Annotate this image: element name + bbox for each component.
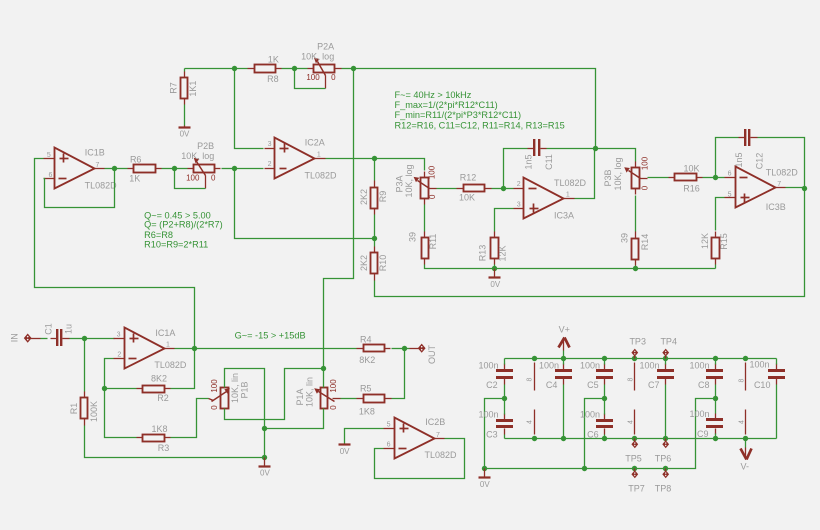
svg-text:1: 1 (566, 192, 570, 199)
wire (786, 187, 805, 189)
capacitor C2 100n (478, 361, 513, 391)
wire (758, 138, 805, 189)
svg-text:R9: R9 (378, 191, 388, 203)
wire (222, 168, 235, 170)
wire (715, 385, 717, 399)
junction (532, 436, 537, 441)
svg-text:R11: R11 (428, 234, 438, 250)
svg-text:0V: 0V (260, 469, 270, 478)
svg-text:C6: C6 (587, 430, 599, 440)
potentiometer P1B 10K lin (209, 373, 250, 410)
svg-text:0: 0 (641, 185, 650, 190)
capacitor C7 100n (639, 361, 674, 390)
wire (105, 359, 114, 389)
svg-text:R4: R4 (360, 334, 372, 344)
resistor R11 39 (407, 232, 437, 265)
junction (561, 356, 566, 361)
wire (374, 159, 376, 181)
wire (282, 68, 295, 70)
capacitor C12 1n5 (734, 129, 765, 169)
svg-text:R2: R2 (157, 393, 169, 403)
svg-text:10K, log: 10K, log (301, 51, 334, 61)
wire (235, 168, 264, 170)
wire (374, 215, 376, 239)
svg-text:0V: 0V (490, 280, 500, 289)
svg-text:0V: 0V (480, 480, 490, 489)
svg-text:C9: C9 (697, 429, 709, 439)
resistor R12 10K (457, 173, 492, 203)
svg-text:1: 1 (166, 342, 170, 349)
svg-text:7: 7 (436, 432, 440, 439)
junction (663, 356, 668, 361)
junction (633, 266, 638, 271)
wire (375, 189, 805, 297)
test point TP5 (625, 439, 642, 464)
svg-text:C4: C4 (546, 380, 558, 390)
svg-text:10K, log: 10K, log (404, 164, 414, 197)
svg-text:0V: 0V (340, 447, 350, 456)
capacitor C4 100n (539, 361, 572, 391)
svg-text:10K, log: 10K, log (613, 157, 623, 190)
capacitor C10 100n (749, 360, 785, 390)
junction (713, 175, 718, 180)
wire (716, 198, 725, 231)
svg-text:P2B: P2B (197, 141, 214, 151)
svg-text:1K1: 1K1 (188, 81, 198, 97)
svg-text:IC3A: IC3A (554, 210, 574, 220)
wire (171, 349, 195, 389)
svg-text:TL082D: TL082D (85, 181, 118, 191)
svg-text:100n: 100n (749, 360, 769, 370)
ground 0V (R13) (489, 269, 501, 290)
svg-text:100: 100 (427, 165, 436, 179)
ground 0V (cap bank) (479, 469, 491, 489)
junction (713, 436, 718, 441)
svg-text:TL082D: TL082D (766, 168, 799, 178)
svg-text:C7: C7 (648, 380, 660, 390)
svg-text:39: 39 (619, 233, 629, 243)
svg-text:100: 100 (210, 379, 219, 393)
op-amp IC2A (TL082D) (265, 137, 338, 180)
svg-text:R12: R12 (460, 173, 477, 183)
svg-text:V+: V+ (559, 325, 570, 335)
wire (105, 168, 115, 170)
svg-text:2: 2 (117, 351, 121, 358)
wire (505, 358, 777, 360)
svg-text:7: 7 (96, 162, 100, 169)
wire (41, 338, 48, 340)
wire (295, 68, 308, 70)
svg-text:R8: R8 (267, 74, 279, 84)
svg-text:100n: 100n (478, 361, 498, 371)
svg-text:8K2: 8K2 (359, 355, 375, 365)
svg-text:1K8: 1K8 (151, 424, 167, 434)
svg-text:100: 100 (329, 379, 338, 393)
wire (604, 435, 606, 439)
pin IN (10, 333, 41, 342)
wire (35, 159, 195, 349)
junction (351, 66, 356, 71)
svg-text:Q= (P2+R8)/(2*R7): Q= (P2+R8)/(2*R7) (144, 220, 223, 230)
wire (354, 69, 596, 149)
wire (175, 169, 206, 189)
svg-text:IN: IN (10, 333, 20, 342)
svg-text:TP6: TP6 (655, 454, 672, 464)
svg-text:100n: 100n (689, 409, 709, 419)
svg-text:2: 2 (268, 161, 272, 168)
ground 0V (main) (259, 458, 271, 478)
capacitor C6 100n (580, 410, 613, 440)
potentiometer P3B 10K log (603, 156, 650, 194)
junction (743, 356, 748, 361)
wire (374, 239, 376, 247)
wire (342, 68, 354, 70)
svg-text:TP3: TP3 (629, 337, 646, 347)
resistor R14 39 (619, 232, 650, 266)
wire (485, 399, 505, 469)
test point TP4 (660, 337, 677, 359)
wire (171, 399, 209, 438)
svg-text:IC2A: IC2A (305, 137, 325, 147)
test point TP3 (629, 337, 646, 359)
svg-text:6: 6 (49, 172, 53, 179)
resistor R6 1K (128, 155, 162, 184)
junction (172, 166, 177, 171)
svg-text:1: 1 (317, 152, 321, 159)
resistor R4 8K2 (357, 334, 391, 365)
op-amp IC3B (TL082D) (725, 167, 799, 212)
wire (392, 349, 405, 399)
junction (802, 186, 807, 191)
junction (632, 356, 637, 361)
svg-text:F_min=R11/(2*pi*P3*R12*C11): F_min=R11/(2*pi*P3*R12*C11) (395, 110, 522, 120)
wire (596, 149, 636, 162)
svg-text:10K: 10K (459, 193, 475, 203)
wire (563, 385, 565, 439)
svg-text:1K: 1K (129, 174, 140, 184)
potentiometer P1A 10K lin (295, 377, 341, 410)
wire (235, 69, 264, 149)
junction (632, 436, 637, 441)
svg-text:P3B: P3B (603, 169, 613, 186)
wire (324, 69, 354, 369)
wire (604, 385, 606, 399)
wire (341, 398, 357, 400)
wire (604, 359, 606, 365)
junction (663, 436, 668, 441)
junction (582, 466, 587, 471)
wire (175, 348, 195, 350)
wire (504, 385, 506, 399)
svg-text:2K2: 2K2 (359, 255, 369, 271)
capacitor C1 1u (43, 323, 73, 346)
IC2 power pins 8/4 (628, 363, 635, 435)
resistor R15 12K (700, 232, 729, 265)
wire (184, 105, 186, 126)
wire (563, 359, 565, 365)
wire (716, 138, 739, 178)
junction (372, 236, 377, 241)
wire (575, 149, 595, 199)
op-amp IC2B (TL082D) (384, 417, 458, 460)
svg-text:C11: C11 (544, 154, 554, 170)
wire (392, 348, 405, 350)
svg-text:2K2: 2K2 (359, 189, 369, 205)
power V- (741, 439, 752, 472)
junction (112, 166, 117, 171)
resistor R10 2K2 (359, 247, 388, 281)
wire (703, 177, 716, 179)
capacitor C8 100n (689, 361, 723, 390)
svg-text:TL082D: TL082D (304, 171, 337, 181)
junction (292, 66, 297, 71)
svg-text:100: 100 (641, 156, 650, 170)
wire (44, 169, 115, 208)
resistor R13 12K (477, 232, 507, 265)
svg-text:7: 7 (777, 181, 781, 188)
wire (494, 265, 496, 269)
junction (561, 436, 566, 441)
wire (85, 426, 265, 458)
svg-text:R16: R16 (683, 183, 700, 193)
wire (492, 188, 504, 190)
wire (485, 399, 716, 469)
resistor R7 1K1 (169, 72, 199, 105)
svg-text:R6=R8: R6=R8 (144, 230, 173, 240)
svg-text:V-: V- (741, 461, 750, 471)
svg-text:4: 4 (628, 420, 635, 424)
svg-text:0: 0 (210, 405, 219, 410)
wire (265, 409, 324, 429)
svg-text:TL082D: TL082D (424, 450, 457, 460)
annotation Q formulas (144, 210, 223, 249)
svg-text:P3A: P3A (395, 175, 405, 192)
junction (593, 146, 598, 151)
wire (184, 69, 186, 72)
junction (402, 346, 407, 351)
junction (743, 436, 748, 441)
svg-text:P1B: P1B (240, 381, 250, 398)
junction (262, 455, 267, 460)
svg-text:TL082D: TL082D (554, 178, 587, 188)
svg-text:0: 0 (331, 73, 336, 82)
wire (424, 205, 426, 232)
svg-text:10K, lin: 10K, lin (230, 373, 240, 403)
wire (504, 188, 514, 190)
op-amp IC1A (TL082D) (114, 328, 187, 371)
wire (225, 369, 265, 429)
svg-text:100n: 100n (580, 410, 600, 420)
wire (295, 69, 326, 89)
IC3 power pins 8/4 (738, 363, 745, 435)
svg-text:C5: C5 (587, 380, 599, 390)
wire (326, 158, 375, 160)
junction (492, 266, 497, 271)
ground 0V (R7) (179, 126, 191, 139)
svg-text:3: 3 (268, 141, 272, 148)
svg-text:IC2B: IC2B (425, 417, 445, 427)
svg-text:TP4: TP4 (660, 337, 677, 347)
wire (185, 68, 248, 70)
potentiometer P2A 10K log (301, 41, 341, 88)
svg-text:6: 6 (728, 170, 732, 177)
svg-text:P1A: P1A (295, 388, 305, 405)
resistor R2 8K2 (137, 374, 171, 403)
svg-text:C12: C12 (755, 153, 765, 170)
svg-text:TP7: TP7 (628, 484, 645, 494)
svg-text:0: 0 (428, 194, 437, 199)
svg-text:IC1B: IC1B (85, 148, 105, 158)
ground 0V (IC2B) (339, 445, 351, 456)
junction (602, 396, 607, 401)
wire (162, 168, 175, 170)
wire (715, 359, 717, 365)
junction (713, 396, 718, 401)
wire (636, 268, 716, 270)
test point TP7 (628, 469, 645, 494)
svg-text:100n: 100n (478, 410, 498, 420)
svg-text:TP8: TP8 (655, 484, 672, 494)
junction (502, 396, 507, 401)
capacitor C5 100n (580, 361, 613, 391)
svg-text:100n: 100n (580, 361, 600, 371)
svg-text:1n5: 1n5 (734, 152, 744, 167)
junction (192, 346, 197, 351)
svg-text:R15: R15 (719, 233, 729, 250)
pin OUT (410, 344, 438, 364)
svg-text:R7: R7 (169, 82, 179, 94)
svg-text:R3: R3 (158, 443, 170, 453)
svg-text:0: 0 (329, 405, 338, 410)
power V+ (559, 325, 570, 359)
wire (715, 265, 717, 269)
annotation G range (235, 330, 306, 340)
svg-text:R1: R1 (69, 403, 79, 415)
resistor R5 1K8 (357, 383, 392, 416)
potentiometer P2B 10K log (181, 141, 220, 189)
svg-text:100K: 100K (89, 401, 99, 422)
junction (663, 466, 668, 471)
wire (115, 168, 128, 170)
op-amp IC3A (TL082D) (514, 178, 587, 221)
svg-text:C10: C10 (754, 380, 771, 390)
svg-text:8K2: 8K2 (151, 374, 167, 384)
svg-text:12K: 12K (700, 233, 710, 249)
wire (716, 177, 725, 179)
svg-text:P2A: P2A (317, 41, 334, 51)
junction (262, 426, 267, 431)
svg-text:8: 8 (628, 377, 635, 381)
wire (585, 399, 605, 469)
junction (602, 436, 607, 441)
wire (504, 435, 506, 439)
svg-text:8: 8 (738, 378, 745, 382)
wire (604, 399, 606, 415)
wire (635, 196, 637, 232)
svg-text:39: 39 (407, 232, 417, 242)
svg-text:3: 3 (117, 331, 121, 338)
resistor R3 1K8 (137, 424, 171, 453)
wire (505, 438, 777, 440)
wire (504, 399, 506, 415)
wire (665, 385, 667, 439)
resistor R8 1K (248, 55, 282, 85)
resistor R16 10K (669, 163, 703, 193)
svg-text:R12=R16, C11=C12, R11=R14, R13: R12=R16, C11=C12, R11=R14, R13=R15 (395, 121, 565, 131)
svg-text:12K: 12K (498, 245, 508, 261)
svg-text:F_max=1/(2*pi*R12*C11): F_max=1/(2*pi*R12*C11) (395, 100, 498, 110)
svg-text:1n5: 1n5 (524, 154, 534, 169)
svg-text:1K8: 1K8 (359, 406, 375, 416)
svg-text:G~= -15 > +15dB: G~= -15 > +15dB (235, 330, 306, 340)
IC1 power pins 8/4 (527, 363, 535, 435)
svg-text:TL082D: TL082D (154, 360, 187, 370)
svg-text:R10=R9=2*R11: R10=R9=2*R11 (144, 240, 208, 250)
svg-text:TP5: TP5 (625, 454, 642, 464)
resistor R1 100K (69, 392, 99, 426)
resistor R9 2K2 (359, 181, 388, 215)
wire (235, 169, 375, 239)
svg-text:R10: R10 (378, 255, 388, 272)
wire (70, 338, 85, 340)
test point TP8 (655, 469, 672, 494)
capacitor C11 1n5 (524, 139, 555, 170)
wire (495, 209, 514, 232)
svg-text:F~= 40Hz > 10kHz: F~= 40Hz > 10kHz (395, 90, 472, 100)
svg-text:C1: C1 (43, 323, 53, 335)
wire (323, 369, 325, 388)
test point TP6 (655, 439, 672, 464)
wire (648, 177, 669, 179)
wire (665, 359, 667, 365)
wire (715, 399, 717, 414)
wire (635, 266, 637, 269)
svg-text:4: 4 (527, 420, 534, 424)
svg-text:1u: 1u (64, 324, 74, 334)
junction (321, 366, 326, 371)
junction (372, 156, 377, 161)
wire (195, 348, 357, 350)
capacitor C3 100n (478, 410, 513, 440)
wire (504, 149, 528, 189)
wire (175, 168, 188, 170)
svg-text:100n: 100n (689, 361, 709, 371)
svg-text:5: 5 (387, 422, 391, 429)
svg-text:C3: C3 (486, 430, 498, 440)
svg-text:100n: 100n (539, 361, 559, 371)
wire (495, 268, 636, 270)
svg-text:R6: R6 (130, 155, 142, 165)
capacitor C9 100n (689, 409, 723, 439)
junction (232, 166, 237, 171)
wire (85, 338, 115, 340)
svg-text:0: 0 (211, 173, 216, 182)
wire (776, 385, 778, 439)
junction (532, 356, 537, 361)
wire (375, 439, 465, 479)
svg-text:R13: R13 (477, 245, 487, 262)
potentiometer P3A 10K log (395, 164, 438, 204)
wire (345, 429, 384, 444)
junction (713, 356, 718, 361)
junction (602, 356, 607, 361)
junction (482, 466, 487, 471)
svg-text:0V: 0V (180, 130, 190, 139)
wire (425, 265, 495, 269)
wire (225, 369, 324, 420)
svg-text:IC1A: IC1A (155, 328, 175, 338)
svg-text:6: 6 (387, 442, 391, 449)
